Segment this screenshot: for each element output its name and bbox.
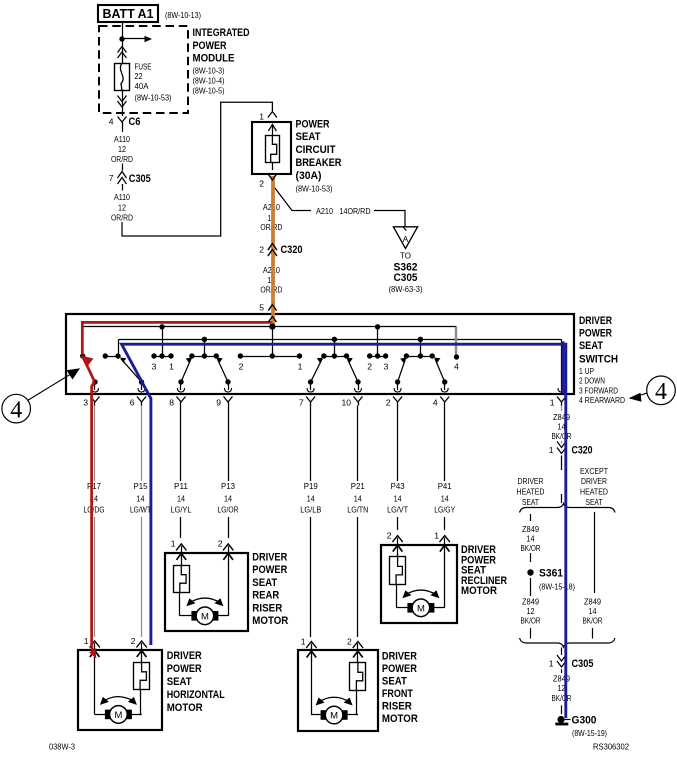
driver power seat front riser motor rotation arrows <box>319 697 350 702</box>
svg-text:BREAKER: BREAKER <box>296 157 342 169</box>
switch B+ bus <box>82 326 456 328</box>
orange highlighted feed wire A210 <box>271 176 275 325</box>
svg-text:BK/OR: BK/OR <box>521 543 541 553</box>
arrowhead entering breaker <box>268 125 276 132</box>
svg-text:Z849: Z849 <box>553 674 570 684</box>
svg-text:(8W-15-19): (8W-15-19) <box>572 728 607 738</box>
svg-text:3: 3 <box>152 362 157 372</box>
wiper pin 3 <box>84 359 95 383</box>
svg-text:P21: P21 <box>351 481 365 491</box>
svg-text:LG/OR: LG/OR <box>218 504 239 514</box>
wiper pin 4 <box>435 359 445 382</box>
svg-text:POWER: POWER <box>167 663 202 675</box>
driver power seat switch label <box>579 315 625 405</box>
svg-text:P11: P11 <box>174 481 188 491</box>
driver power seat front riser motor box <box>298 650 378 731</box>
svg-text:2 DOWN: 2 DOWN <box>579 376 605 386</box>
B+ contacts positions 3/1 <box>151 353 156 358</box>
svg-text:2: 2 <box>386 397 391 407</box>
svg-text:P43: P43 <box>391 481 405 491</box>
ground bus drop pins 8/9 section <box>204 339 206 356</box>
driver power seat front riser motor motor M <box>321 710 327 720</box>
svg-text:10: 10 <box>341 397 351 407</box>
svg-text:P19: P19 <box>304 481 318 491</box>
svg-text:OR/RD: OR/RD <box>111 154 133 164</box>
svg-text:40A: 40A <box>135 81 149 91</box>
driver power seat horizontal motor circuit breaker <box>134 663 150 690</box>
svg-text:POWER: POWER <box>296 118 330 130</box>
svg-text:S361: S361 <box>539 567 563 579</box>
ground contacts pins 2/4 section <box>404 353 409 358</box>
driver power seat rear riser motor rotation arrows <box>189 598 220 603</box>
switch pin 1 <box>558 388 565 392</box>
svg-text:7: 7 <box>299 397 304 407</box>
wiper pin 7 <box>311 359 323 382</box>
svg-text:SEAT: SEAT <box>167 676 192 688</box>
callout leader line right <box>636 393 647 396</box>
wire below C320 <box>561 456 563 471</box>
svg-text:BK/OR: BK/OR <box>583 616 603 626</box>
fuse 22 40A label <box>135 61 172 102</box>
svg-text:SEAT: SEAT <box>522 497 540 507</box>
svg-text:(8W-10-5): (8W-10-5) <box>193 85 225 95</box>
wiper pin 2 <box>398 359 406 382</box>
svg-text:A: A <box>403 234 409 244</box>
ground bus drop pins 7/10 section <box>334 339 336 356</box>
svg-text:MOTOR: MOTOR <box>167 702 203 714</box>
svg-text:1: 1 <box>550 397 555 407</box>
ground contacts pins 7/10 section <box>321 353 326 358</box>
B+ drop positions 2/3 <box>377 327 379 356</box>
power seat circuit breaker box <box>252 122 291 174</box>
svg-text:DRIVER: DRIVER <box>167 650 202 662</box>
svg-text:Z849: Z849 <box>553 412 570 422</box>
svg-text:CIRCUIT: CIRCUIT <box>296 144 336 156</box>
svg-text:1: 1 <box>434 530 439 540</box>
rejoin bracket <box>520 638 616 647</box>
except driver heated seat branch wire <box>594 512 596 593</box>
svg-text:C320: C320 <box>572 444 593 456</box>
wire label A210 14 OR/RD below C320 <box>260 265 282 295</box>
svg-text:M: M <box>201 611 209 622</box>
callout circle 4 right <box>647 376 676 405</box>
driver power seat rear riser motor label <box>252 552 288 628</box>
B+ bus left drop to contact <box>82 327 84 356</box>
svg-text:038W-3: 038W-3 <box>49 741 75 751</box>
svg-text:MOTOR: MOTOR <box>461 585 497 597</box>
ground bus drop pins 2/4 section <box>420 339 422 356</box>
switch pin 2 <box>394 388 401 392</box>
svg-text:1 UP: 1 UP <box>579 366 594 376</box>
wire C6 to C305, A110 12 OR/RD <box>122 126 124 133</box>
driver power seat horizontal motor label <box>167 650 225 714</box>
svg-text:C6: C6 <box>129 116 141 128</box>
driver power seat recliner motor label <box>461 544 507 597</box>
svg-text:8: 8 <box>169 397 174 407</box>
svg-text:1: 1 <box>259 111 264 121</box>
driver power seat recliner motor motor M <box>407 603 413 613</box>
wire A210 branch to S362 <box>275 188 312 211</box>
switch pin 3 <box>92 388 99 392</box>
wire pin 10 P21 14 LG/TN <box>357 406 359 482</box>
svg-text:1: 1 <box>169 362 174 372</box>
red highlighted wire to horizontal motor pin 1 <box>92 382 95 656</box>
ground contacts pins 8/9 section <box>189 353 194 358</box>
driver power seat horizontal motor box <box>78 650 162 730</box>
svg-text:M: M <box>114 710 122 721</box>
svg-text:14: 14 <box>394 493 402 503</box>
switch ground bus <box>119 339 562 341</box>
svg-text:MOTOR: MOTOR <box>252 615 288 627</box>
driver power seat recliner motor box <box>381 545 457 623</box>
svg-text:LG/YL: LG/YL <box>171 504 192 514</box>
svg-text:1: 1 <box>171 539 176 549</box>
svg-text:2: 2 <box>218 539 223 549</box>
driver power seat front riser motor circuit breaker <box>350 663 366 691</box>
off-page triangle connector A to S362 C305 <box>393 227 417 249</box>
svg-text:SEAT: SEAT <box>382 676 407 688</box>
wire label A210 14 OR/RD above C320 <box>260 202 282 232</box>
wire label A110 12 OR/RD below C305 <box>122 184 124 191</box>
driver power seat front riser motor internal wiring <box>357 661 359 663</box>
wire pin 3 P17 14 LG/DG <box>94 406 96 482</box>
svg-text:2: 2 <box>387 530 392 540</box>
wiper pin 8 <box>181 359 191 382</box>
svg-text:LG/GY: LG/GY <box>434 504 455 514</box>
ground G300 <box>557 716 564 723</box>
svg-text:FRONT: FRONT <box>382 688 413 700</box>
inline connector chevrons above fuse <box>118 47 127 53</box>
switch pin 4 <box>441 388 448 392</box>
wire pin 9 P13 14 LG/OR <box>228 406 230 482</box>
splice S361 <box>527 569 533 575</box>
svg-text:POWER: POWER <box>252 564 287 576</box>
svg-text:6: 6 <box>130 397 135 407</box>
svg-text:RISER: RISER <box>382 701 412 713</box>
ground bus drop pins 3/6 section <box>118 339 120 356</box>
svg-text:P41: P41 <box>438 481 452 491</box>
svg-text:P15: P15 <box>134 481 148 491</box>
circuit breaker element symbol <box>266 136 280 163</box>
svg-text:1: 1 <box>549 658 554 668</box>
svg-text:12: 12 <box>527 606 535 616</box>
svg-text:5: 5 <box>259 303 264 313</box>
svg-text:2: 2 <box>259 179 264 189</box>
switch pin 10 <box>355 388 362 392</box>
svg-text:1: 1 <box>549 445 554 455</box>
svg-text:M: M <box>330 711 338 722</box>
svg-text:3 FORWARD: 3 FORWARD <box>579 386 618 396</box>
svg-text:7: 7 <box>109 173 114 183</box>
svg-text:BATT A1: BATT A1 <box>103 7 154 21</box>
svg-text:DRIVER: DRIVER <box>581 476 607 486</box>
svg-text:Z849: Z849 <box>522 524 539 534</box>
svg-text:14: 14 <box>224 493 232 503</box>
svg-text:(8W-15-18): (8W-15-18) <box>539 581 575 591</box>
svg-text:RISER: RISER <box>252 602 282 614</box>
driver power seat recliner motor rotation arrows <box>405 590 436 595</box>
wire below S361 Z849 12 BK/OR <box>530 578 532 596</box>
switch pin 9 <box>225 388 232 392</box>
wire from BATT A1 into IPM <box>122 23 124 64</box>
ground contacts pins 3/6 section <box>103 353 108 358</box>
svg-text:C305: C305 <box>572 658 594 670</box>
battery feed box BATT A1 <box>98 5 158 22</box>
fuse 22 40A symbol <box>115 64 130 91</box>
svg-text:SWITCH: SWITCH <box>579 354 618 366</box>
B+ contacts positions 2/1 <box>238 353 243 358</box>
svg-text:LG/DG: LG/DG <box>84 504 105 514</box>
wire pin 2 P43 14 LG/VT <box>397 406 399 482</box>
callout circle 4 left <box>2 394 31 423</box>
svg-text:14: 14 <box>137 493 145 503</box>
driver heated seat branch wire <box>530 514 532 521</box>
svg-text:RS306302: RS306302 <box>593 741 629 751</box>
red highlighted wiper pin 3 <box>84 360 94 382</box>
driver power seat switch box <box>66 314 574 394</box>
connector C320 chevrons over wire <box>268 244 277 251</box>
svg-text:TO: TO <box>400 251 411 261</box>
label TO S362 C305 <box>389 251 423 295</box>
driver power seat front riser motor label <box>382 651 418 726</box>
svg-text:4: 4 <box>433 397 438 407</box>
svg-text:1: 1 <box>298 362 303 372</box>
svg-text:POWER: POWER <box>579 327 612 339</box>
svg-text:HORIZONTAL: HORIZONTAL <box>167 689 225 701</box>
svg-text:4 REARWARD: 4 REARWARD <box>579 395 625 405</box>
wire pin 7 P19 14 LG/LB <box>310 406 312 482</box>
svg-text:(8W-10-53): (8W-10-53) <box>135 92 172 102</box>
inline connector chevrons below fuse <box>118 96 127 102</box>
svg-text:P13: P13 <box>221 481 235 491</box>
wiper pin 6 <box>121 359 142 382</box>
svg-text:(8W-10-13): (8W-10-13) <box>165 10 201 20</box>
integrated power module dashed box <box>99 26 188 113</box>
svg-text:SEAT: SEAT <box>252 577 277 589</box>
svg-text:A210: A210 <box>316 206 333 216</box>
svg-text:BK/OR: BK/OR <box>521 616 541 626</box>
svg-text:LG/VT: LG/VT <box>387 504 409 514</box>
switch pin 8 <box>178 388 185 392</box>
driver power seat horizontal motor rotation arrows <box>103 697 134 702</box>
svg-text:14: 14 <box>527 534 535 544</box>
svg-text:14: 14 <box>177 493 185 503</box>
svg-text:M: M <box>417 603 425 614</box>
branch label driver heated seat <box>517 476 545 507</box>
switch pin 6 <box>138 388 145 392</box>
circuit breaker pin 2 <box>268 174 277 181</box>
wire A110 routing up to circuit breaker <box>122 102 272 236</box>
svg-text:LG/LB: LG/LB <box>300 504 321 514</box>
driver power seat recliner motor circuit breaker <box>390 557 406 585</box>
svg-text:BK/OR: BK/OR <box>552 693 572 703</box>
wire pin 6 P15 14 LG/WT <box>141 406 143 482</box>
blue highlighted drop to switch pin 1 <box>562 341 565 393</box>
wire rejoin to C305 <box>561 648 563 656</box>
svg-text:14: 14 <box>441 493 449 503</box>
svg-text:G300: G300 <box>572 714 597 726</box>
ground bus drop to pin 1 <box>561 339 563 393</box>
svg-text:C320: C320 <box>281 244 303 256</box>
driver power seat horizontal motor internal wiring <box>141 660 143 662</box>
svg-text:4: 4 <box>454 362 459 372</box>
svg-text:12: 12 <box>118 144 126 154</box>
svg-text:9: 9 <box>216 397 221 407</box>
driver power seat recliner motor internal wiring <box>397 555 399 557</box>
blue highlighted ground bus wire <box>122 344 566 718</box>
wire label Z849 12 BK/OR above ground <box>561 669 563 673</box>
svg-text:4: 4 <box>10 397 22 423</box>
svg-text:POWER: POWER <box>382 663 417 675</box>
B+ drop positions 3/1 <box>162 327 164 356</box>
svg-text:DRIVER: DRIVER <box>252 552 287 564</box>
B+ contact node pins 3/6 section <box>80 353 85 358</box>
svg-text:C305: C305 <box>394 272 418 284</box>
driver power seat rear riser motor box <box>165 553 248 631</box>
svg-text:BK/OR: BK/OR <box>552 431 572 441</box>
svg-text:INTEGRATED: INTEGRATED <box>193 27 250 39</box>
svg-text:(8W-63-3): (8W-63-3) <box>389 284 423 294</box>
svg-text:A110: A110 <box>114 192 130 202</box>
junction node in IPM <box>119 36 124 41</box>
svg-text:(8W-10-4): (8W-10-4) <box>193 76 225 86</box>
svg-text:DRIVER: DRIVER <box>579 315 612 327</box>
svg-text:C305: C305 <box>129 173 151 185</box>
svg-text:14: 14 <box>307 493 315 503</box>
svg-text:MODULE: MODULE <box>193 53 235 65</box>
svg-text:4: 4 <box>655 379 667 405</box>
svg-text:REAR: REAR <box>252 590 279 602</box>
integrated power module label <box>193 27 250 95</box>
svg-text:14OR/RD: 14OR/RD <box>340 206 371 216</box>
junction node feed to B+ bus <box>269 324 275 330</box>
switch pin 7 <box>307 388 314 392</box>
breaker pin 2 chevron over wire <box>268 174 277 181</box>
svg-text:LG/WT: LG/WT <box>130 504 152 514</box>
branch label except driver heated seat <box>580 466 609 507</box>
wire pin 4 P41 14 LG/GY <box>444 406 446 482</box>
svg-text:HEATED: HEATED <box>517 486 545 496</box>
svg-text:14: 14 <box>589 606 597 616</box>
wire pin 8 P11 14 LG/YL <box>180 406 182 482</box>
svg-text:HEATED: HEATED <box>580 486 608 496</box>
switch pin stubs and nodes <box>92 379 447 390</box>
driver power seat rear riser motor internal wiring <box>181 563 183 565</box>
svg-text:A110: A110 <box>114 134 130 144</box>
switch pin 5 chevrons over wire <box>268 305 276 311</box>
svg-text:POWER: POWER <box>193 40 227 52</box>
svg-text:14: 14 <box>354 493 362 503</box>
svg-text:DRIVER: DRIVER <box>382 651 417 663</box>
svg-text:3: 3 <box>83 397 88 407</box>
svg-text:1: 1 <box>301 636 306 646</box>
svg-text:(30A): (30A) <box>296 170 322 182</box>
B+ bus right drop position 4 highlighted gray <box>455 327 457 357</box>
svg-text:SEAT: SEAT <box>579 340 603 352</box>
branch arrow to other circuits <box>122 38 146 40</box>
junction node feed meets B+ bus <box>269 323 275 329</box>
svg-text:4: 4 <box>109 116 114 126</box>
svg-text:FUSE: FUSE <box>135 61 152 71</box>
driver power seat rear riser motor motor M <box>191 611 197 621</box>
svg-text:2: 2 <box>367 362 372 372</box>
driver power seat rear riser motor circuit breaker <box>174 566 190 593</box>
split bracket to two harness options <box>520 504 616 513</box>
B+ drop positions 2/1 <box>272 327 274 356</box>
svg-text:(8W-10-3): (8W-10-3) <box>193 65 225 75</box>
svg-text:12: 12 <box>118 202 126 212</box>
wiper pin 9 <box>217 359 228 382</box>
svg-text:2: 2 <box>131 636 136 646</box>
B+ contacts positions 2/3 <box>367 353 372 358</box>
svg-text:3: 3 <box>384 362 389 372</box>
svg-text:EXCEPT: EXCEPT <box>580 466 609 476</box>
svg-text:Z849: Z849 <box>584 596 601 606</box>
svg-text:2: 2 <box>259 244 264 254</box>
svg-text:SEAT: SEAT <box>586 497 604 507</box>
svg-text:1: 1 <box>84 636 89 646</box>
svg-text:2: 2 <box>239 362 244 372</box>
power seat circuit breaker label <box>296 118 342 193</box>
svg-text:(8W-10-53): (8W-10-53) <box>296 183 333 193</box>
svg-text:MOTOR: MOTOR <box>382 713 418 725</box>
wiper pin 10 <box>347 359 358 382</box>
wire fuse to C6 <box>122 91 124 117</box>
svg-text:DRIVER: DRIVER <box>518 476 544 486</box>
driver power seat horizontal motor motor M <box>105 710 111 720</box>
svg-text:SEAT: SEAT <box>296 131 321 143</box>
svg-text:2: 2 <box>347 636 352 646</box>
callout leader line left <box>28 375 71 401</box>
svg-text:P17: P17 <box>87 481 101 491</box>
svg-text:Z849: Z849 <box>522 596 539 606</box>
svg-text:OR/RD: OR/RD <box>111 212 133 222</box>
svg-text:22: 22 <box>135 71 143 81</box>
red highlighted B+ bus wire <box>82 322 271 355</box>
svg-text:LG/TN: LG/TN <box>347 504 368 514</box>
wire pin 1 Z849 14 BK/OR <box>561 406 563 412</box>
